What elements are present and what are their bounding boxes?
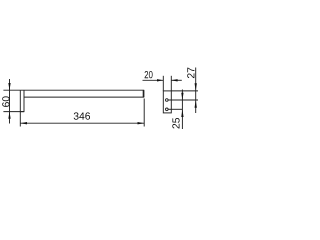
- leader line lower screw hole: [168, 108, 182, 110]
- bar (side view) top edge: [20, 89, 144, 91]
- dimension line 25: [181, 90, 183, 130]
- dimension line 20 right part: [171, 79, 182, 81]
- extension line top for dim 60: [3, 89, 20, 91]
- arrowhead dim 25 top: [181, 93, 183, 100]
- wall plate (end view): [163, 91, 171, 113]
- extension line left for dim 20: [162, 76, 164, 91]
- arrowhead dim 20 left: [157, 79, 163, 81]
- arrowhead dim 60 top: [8, 83, 10, 90]
- screw hole upper: [166, 99, 169, 102]
- arrowhead dim 60 bottom: [8, 112, 10, 119]
- arrowhead dim 346 right: [138, 122, 145, 124]
- value label 20: [145, 71, 153, 78]
- value label 27: [187, 68, 194, 78]
- arrowhead dim 20 right: [171, 79, 177, 81]
- arrowhead dim 25 bottom: [181, 109, 183, 117]
- dimension line 60: [9, 79, 11, 124]
- value label 346: [74, 112, 90, 119]
- dimension line 346: [20, 122, 144, 124]
- extension line top for dim 27: [171, 90, 198, 92]
- screw hole lower: [166, 108, 169, 111]
- value label 25: [172, 118, 179, 129]
- value label 60: [2, 96, 9, 107]
- extension line bottom for dim 60: [3, 111, 24, 113]
- arrowhead dim 27 bottom: [195, 100, 197, 108]
- extension line right for dim 20: [170, 76, 172, 91]
- arrowhead dim 346 left: [20, 122, 27, 124]
- bar bottom edge: [24, 96, 144, 98]
- extension line right for dim 346: [143, 99, 145, 127]
- dimension line 20 left part: [143, 79, 164, 81]
- leader line upper screw hole: [168, 99, 198, 101]
- dimension line 27: [195, 68, 197, 114]
- bar right end cap: [143, 90, 145, 97]
- extension line left for dim 346: [19, 112, 21, 127]
- arrowhead dim 27 top: [195, 83, 197, 91]
- wall plate (side view): [20, 90, 24, 111]
